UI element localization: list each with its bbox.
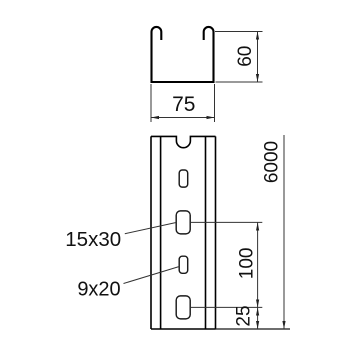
svg-text:9x20: 9x20	[77, 279, 120, 301]
svg-text:25: 25	[234, 305, 255, 326]
svg-text:60: 60	[235, 46, 256, 67]
svg-text:15x30: 15x30	[65, 228, 121, 251]
svg-text:6000: 6000	[261, 141, 282, 183]
svg-text:100: 100	[236, 248, 257, 280]
svg-text:75: 75	[172, 93, 195, 116]
